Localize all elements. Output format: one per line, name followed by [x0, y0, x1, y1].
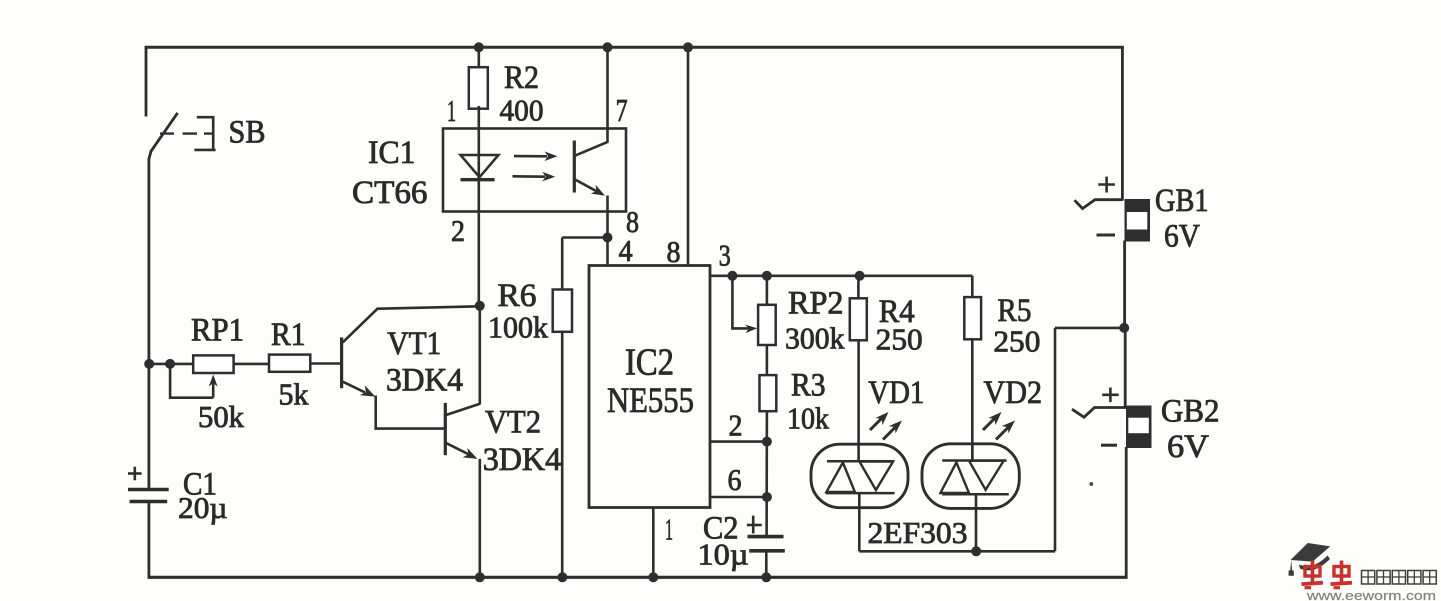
label 10k [787, 401, 829, 436]
svg-text:7: 7 [616, 92, 628, 128]
wire R5 feed corner [971, 276, 974, 298]
svg-text:RP2: RP2 [788, 286, 844, 322]
svg-text:2: 2 [451, 213, 465, 248]
label RP2 [788, 286, 844, 322]
svg-text:IC1: IC1 [368, 135, 416, 171]
VD1 body [811, 444, 908, 508]
label VD2 [984, 375, 1043, 411]
label 50k [198, 399, 244, 434]
phototransistor emitter [575, 180, 605, 196]
wire junction to R6 branch [562, 236, 607, 239]
svg-text:1: 1 [665, 512, 673, 547]
speck artifact [1089, 482, 1093, 486]
light arrow 1 [514, 152, 558, 162]
capacitor C1 plates [128, 490, 169, 502]
VT1 emitter [343, 382, 376, 397]
svg-text:6: 6 [728, 462, 742, 497]
svg-text:10µ: 10µ [698, 537, 749, 572]
svg-text:1: 1 [447, 93, 456, 128]
resistor R4 [850, 298, 867, 340]
resistor R3 [760, 375, 777, 411]
label R4 [879, 294, 915, 330]
plus sign C2 [747, 516, 762, 534]
svg-text:20µ: 20µ [178, 490, 228, 525]
svg-text:250: 250 [993, 324, 1040, 359]
switch SB actuator bracket [194, 117, 215, 150]
wire left to RP1 [149, 363, 193, 366]
VD2 right triangle [969, 461, 1004, 490]
svg-text:8: 8 [667, 234, 681, 269]
svg-text:GB1: GB1 [1155, 183, 1209, 219]
GB2 plus lead [1072, 408, 1127, 418]
label 5k [279, 377, 309, 412]
wire right rail junction-GB2 segment [1124, 328, 1127, 408]
label 6V gb1 [1164, 219, 1200, 255]
label VT1 [387, 326, 441, 362]
label R2 [504, 60, 539, 96]
wire R6 bottom [561, 332, 564, 578]
svg-text:IC2: IC2 [625, 342, 674, 384]
svg-text:www.eeworm.com: www.eeworm.com [1306, 589, 1436, 601]
wire VT1 emitter to VT2 base [376, 396, 446, 429]
svg-text:SB: SB [229, 115, 266, 151]
label VT2 [485, 405, 541, 441]
VT1 base bar [340, 337, 343, 388]
svg-text:VT1: VT1 [387, 326, 441, 362]
label R5 [997, 293, 1031, 329]
label R6 [498, 278, 537, 314]
resistor R2 [469, 67, 488, 109]
wire pin2 horizontal [710, 440, 767, 443]
light arrow 2 [513, 172, 556, 182]
label pin 7 [616, 92, 628, 128]
wire VD bottom horizontal [859, 550, 1055, 553]
resistor R1 [269, 355, 310, 372]
svg-text:R1: R1 [271, 317, 306, 353]
IC2 box [589, 266, 710, 508]
watermark site name glyphs [1362, 571, 1437, 585]
label 250 r5 [993, 324, 1040, 359]
VD2 bottom bar [942, 493, 1009, 496]
svg-text:100k: 100k [488, 310, 548, 345]
VD2 left triangle [940, 462, 969, 493]
wire left rail upper stub [145, 46, 148, 117]
wire pin4 drop [606, 238, 609, 267]
svg-text:2EF303: 2EF303 [868, 515, 968, 550]
label 6V gb2 [1167, 429, 1209, 465]
plus sign C1 [128, 467, 142, 481]
label RP1 [191, 313, 244, 349]
wire top supply rail [145, 46, 1124, 49]
label pin 8 ic2 [667, 234, 681, 269]
watermark url [1306, 589, 1436, 601]
svg-text:300k: 300k [785, 321, 845, 356]
wire left rail below C1 [147, 502, 150, 579]
svg-text:2: 2 [729, 408, 743, 443]
wire GB junction branch [1055, 327, 1125, 330]
potentiometer RP2 [758, 305, 776, 345]
watermark chongchong red glyphs [1302, 561, 1353, 588]
label VD1 [868, 375, 924, 411]
label NE555 [607, 380, 694, 420]
wire pin7 drop [606, 47, 609, 142]
wire RP2-R3 [766, 345, 769, 375]
svg-text:R3: R3 [791, 368, 826, 404]
svg-text:250: 250 [876, 322, 923, 357]
svg-text:5k: 5k [279, 377, 309, 412]
svg-text:NE555: NE555 [607, 380, 694, 420]
svg-text:CT66: CT66 [352, 175, 428, 211]
svg-text:3DK4: 3DK4 [483, 442, 562, 478]
plus sign GB1 [1098, 177, 1115, 193]
phototransistor collector [575, 142, 608, 156]
switch SB dashed actuator link [160, 132, 213, 134]
wire VD2 bottom lead [975, 494, 978, 551]
wire R4 top [857, 276, 860, 299]
wire right rail top segment [1121, 46, 1124, 201]
svg-text:VD2: VD2 [984, 375, 1043, 411]
label 10u [698, 537, 749, 572]
label R3 [791, 368, 826, 404]
label 3DK4 vt1 [386, 363, 463, 399]
label pin 2 ic2 [729, 408, 743, 443]
wire RP1-R1 [234, 363, 269, 366]
wire R1 to VT1 base [310, 362, 342, 365]
VT2 emitter [446, 443, 477, 459]
label 3DK4 vt2 [483, 442, 562, 478]
minus sign GB1 [1097, 234, 1116, 237]
VD1 light arrows [870, 412, 902, 440]
wire RP1 wiper loop [170, 364, 218, 398]
svg-text:6V: 6V [1164, 219, 1200, 255]
wire right rail GB1-junction segment [1123, 241, 1126, 329]
resistor R5 [964, 297, 981, 339]
label SB [229, 115, 266, 151]
svg-text:6V: 6V [1167, 429, 1209, 465]
wire pin1 drop [652, 508, 655, 578]
label pin 6 [728, 462, 742, 497]
optocoupler IC1 box [443, 129, 626, 212]
label IC2 [625, 342, 674, 384]
potentiometer RP1 [193, 355, 233, 373]
wire R2 top stub [477, 47, 480, 67]
VD1 left triangle [826, 463, 855, 493]
label C2 [703, 511, 739, 547]
label IC1 [368, 135, 416, 171]
svg-text:10k: 10k [787, 401, 829, 436]
plus sign GB2 [1102, 388, 1119, 403]
wire R5 to VD2 [971, 339, 974, 461]
wire C2 bottom [765, 551, 768, 578]
wire R6 top [561, 238, 564, 291]
LED triangle IC1 [461, 155, 499, 177]
label R1 [271, 317, 306, 353]
label pin 8 opto [626, 204, 639, 239]
VD2 body [922, 444, 1019, 509]
watermark graduation cap [1289, 543, 1331, 576]
wire pin3 horizontal [710, 274, 972, 277]
VD1 right triangle [859, 462, 893, 491]
label C1 [183, 467, 217, 503]
VD1 bottom bar [826, 492, 895, 495]
label CT66 [352, 175, 428, 211]
label 300k [785, 321, 845, 356]
GB1 cell block [1125, 199, 1151, 242]
minus sign GB2 [1101, 444, 1117, 447]
svg-text:VT2: VT2 [485, 405, 541, 441]
GB2 cell block [1126, 406, 1152, 449]
label GB1 [1155, 183, 1209, 219]
VT1 collector [343, 306, 480, 342]
svg-text:VD1: VD1 [868, 375, 924, 411]
label 400 [500, 93, 544, 128]
svg-text:4: 4 [619, 233, 633, 268]
label 2EF303 [868, 515, 968, 550]
svg-text:400: 400 [500, 93, 544, 128]
label 100k [488, 310, 548, 345]
VT2 collector [446, 404, 479, 415]
wire RP2 wiper L [732, 276, 757, 333]
label GB2 [1161, 394, 1220, 430]
label pin 1 [447, 93, 456, 128]
wire left rail lower [149, 151, 151, 490]
wire R3 bottom to C2 [765, 411, 768, 536]
wire VD1 bottom lead [858, 493, 861, 551]
wire pin8 opto drop [606, 196, 609, 238]
wire VT2 collector riser [478, 306, 481, 404]
svg-text:R2: R2 [504, 60, 539, 96]
wire RP2 top [766, 276, 769, 305]
pushbutton switch SB blade [151, 113, 178, 152]
wire VD2 top lead [971, 444, 974, 462]
label pin 2 [451, 213, 465, 248]
VD2 top bar [942, 459, 1006, 462]
phototransistor base bar [573, 141, 576, 193]
VD2 light arrows [983, 412, 1015, 440]
VD1 top bar [827, 460, 894, 463]
LED cathode bar IC1 [461, 178, 495, 181]
label pin 4 [619, 233, 633, 268]
label 20u [178, 490, 228, 525]
label 250 r4 [876, 322, 923, 357]
svg-text:50k: 50k [198, 399, 244, 434]
label pin 3 [719, 238, 731, 273]
GB1 plus lead [1075, 200, 1123, 209]
VT2 base bar [444, 403, 447, 455]
wire R4 to VD1 [857, 340, 860, 461]
svg-text:RP1: RP1 [191, 313, 244, 349]
resistor R6 [553, 290, 572, 332]
wire VT2 emitter drop [478, 459, 481, 577]
label pin 1 ic2 [665, 512, 673, 547]
wire right rail below GB2 [1125, 447, 1128, 579]
svg-text:3DK4: 3DK4 [386, 363, 463, 399]
wire pin8 ic2 drop [687, 47, 690, 266]
wire LED anode/cathode vertical [477, 106, 480, 307]
wire bottom ground rail [148, 576, 1128, 579]
capacitor C2 plates [748, 537, 785, 551]
wire pin6 horizontal [710, 496, 767, 499]
wire VD net riser [1054, 328, 1057, 551]
svg-text:3: 3 [719, 238, 731, 273]
svg-text:GB2: GB2 [1161, 394, 1220, 430]
